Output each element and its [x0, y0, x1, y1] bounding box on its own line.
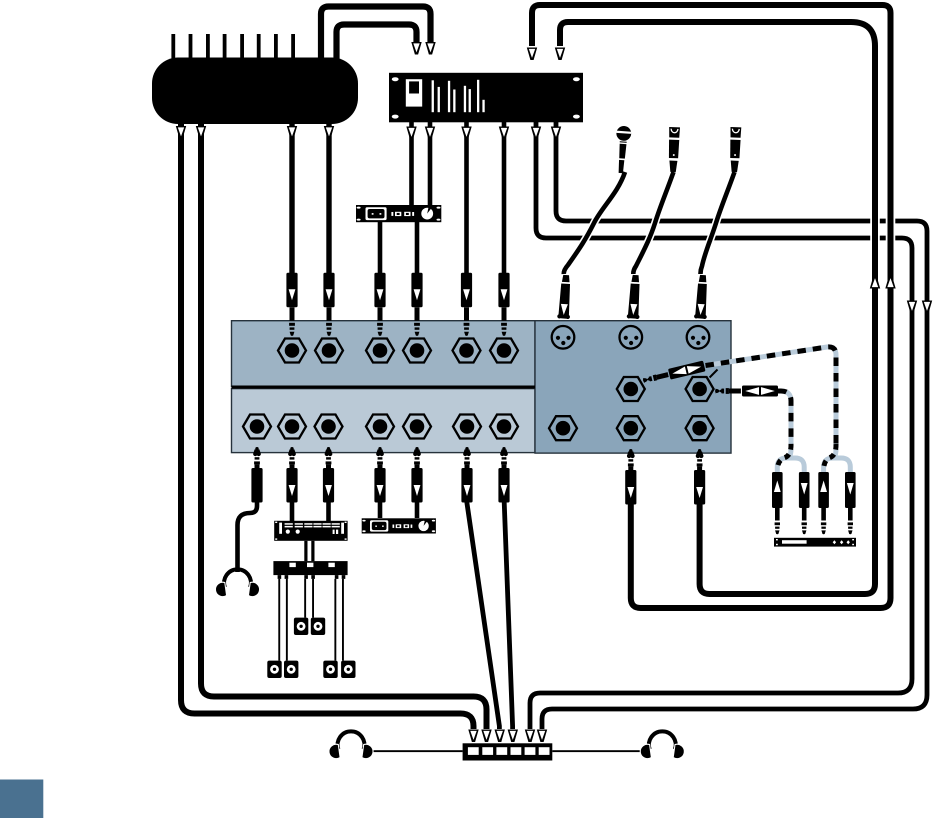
- wire: keyboard lower output L1 to distribution box (left outer loop): [176, 124, 479, 742]
- return loop: aux out jack to processor top input 1 (via right side): [527, 5, 896, 608]
- insert send/return cable into insert jack J15 (horizontal plug): [715, 386, 791, 447]
- headphone line right: [552, 750, 641, 752]
- effects loop plug 1 (send): [772, 472, 783, 534]
- Y-split link arc (left pair): [777, 444, 804, 474]
- wire: keyboard output 2 loop to processor input 2: [337, 25, 422, 61]
- jack socket J17 (aux/monitor out 2): [617, 416, 645, 440]
- wire: keyboard output to mixer channel 2: [324, 124, 334, 273]
- wire: processor output 3 to mixer channel 5: [461, 122, 471, 273]
- jack socket J4 (line in 4): [403, 339, 431, 363]
- wire: output 1 to listening headphones H1: [238, 502, 258, 572]
- compressor unit A (1001): [356, 205, 441, 222]
- wire: output 7 to distribution box input 4: [504, 502, 518, 742]
- speaker SP6: [341, 661, 355, 678]
- jack plug into line in 4: [411, 273, 422, 336]
- jack socket J11 (output 5): [403, 415, 431, 439]
- speaker wires pair 3: [334, 579, 344, 661]
- wire: keyboard output 1 loop to processor input 1: [321, 7, 436, 61]
- wire: outputs 2,3 to power amp PA1: [292, 502, 329, 521]
- headphone distribution box DB1: [463, 743, 553, 760]
- effects loop plug 2 (return): [799, 472, 810, 534]
- return loop: monitor out jack to processor top input 2 (via right side): [555, 22, 880, 594]
- output plug into output jack 7: [498, 447, 509, 503]
- headphones H3 (right of box): [639, 731, 685, 759]
- XLR plug of microphone M3: [694, 275, 709, 319]
- output plug into output jack 2: [286, 447, 297, 503]
- corner accent square: [0, 780, 43, 818]
- wire: processor output 4 to mixer channel 6: [499, 122, 509, 273]
- jack socket J2 (line in 2): [315, 339, 343, 363]
- speaker terminal strip TS1: [273, 561, 347, 579]
- insert jack socket J15 with switch tick: [686, 370, 718, 402]
- wire: compressor A output 2 to mixer channel 4: [415, 222, 420, 273]
- speaker wires pair 1: [278, 579, 288, 661]
- microphone M1 cable to mixer XLR 1: [564, 172, 625, 274]
- effects loop plug 3 (send): [818, 472, 829, 534]
- jack socket J6 (line in 6): [490, 339, 518, 363]
- mixer panel: mic/aux section: [535, 321, 731, 453]
- mixer panel: line input section: [232, 321, 536, 387]
- jack plug into line in 2: [323, 273, 334, 336]
- mixer panel: output section: [232, 389, 536, 453]
- XLR plug of microphone M2: [627, 275, 642, 319]
- jack socket J3 (line in 3): [366, 339, 394, 363]
- compressor unit B (1001): [362, 518, 436, 533]
- headphones H1: [215, 569, 261, 597]
- jack socket J16 (aux/monitor out 1): [549, 416, 577, 440]
- jack plug into line in 3: [374, 273, 385, 336]
- Y-split link arc (right pair): [824, 444, 851, 474]
- jack plug into line in 6: [498, 273, 509, 336]
- power amplifier PA1: [274, 521, 347, 541]
- headphone line left: [372, 750, 463, 752]
- insert send/return cable into insert jack J14 (diagonal plug): [642, 347, 836, 446]
- insert jack socket J14: [617, 377, 645, 401]
- effects unit FX1: [774, 538, 856, 547]
- effects loop plug 4 (return): [845, 472, 856, 534]
- jack socket J9 (output 3): [315, 415, 343, 439]
- speaker SP4: [311, 618, 325, 635]
- processor rack unit U1: [389, 73, 583, 123]
- microphone M3 (condenser): [729, 127, 741, 172]
- jack plug into line in 1: [286, 273, 297, 336]
- wire: processor output 2 to compressor A input 2: [425, 122, 435, 205]
- divider between mixer sections: [232, 386, 536, 389]
- wire: keyboard output to mixer channel 1: [287, 124, 297, 273]
- microphone M1 (dynamic): [614, 125, 632, 173]
- XLR input socket X3: [687, 326, 710, 349]
- jack plug into line in 5: [461, 273, 472, 336]
- wire: keyboard lower output L2 to distribution box (left inner loop): [196, 124, 492, 742]
- wires: outputs 4,5 to compressor B: [380, 502, 417, 518]
- microphone M3 cable to mixer XLR 3: [700, 172, 734, 274]
- jack socket J12 (output 6): [453, 415, 481, 439]
- output plug into output jack 4: [374, 447, 385, 503]
- speaker SP1: [267, 661, 281, 678]
- XLR input socket X1: [552, 326, 575, 349]
- jack socket J10 (output 4): [366, 415, 394, 439]
- wire: processor output 1 to compressor A input 1: [406, 122, 416, 205]
- XLR input socket X2: [620, 326, 643, 349]
- jack socket J18 (aux/monitor out 3): [686, 416, 714, 440]
- speaker SP5: [323, 661, 337, 678]
- speaker wires pair 2: [304, 579, 314, 618]
- jack socket J8 (output 2): [278, 415, 306, 439]
- wires: amp outputs to speaker terminal strip: [304, 541, 314, 561]
- jack socket J5 (line in 5): [453, 339, 481, 363]
- microphone M2 (condenser): [668, 127, 680, 172]
- speaker SP3: [294, 618, 308, 635]
- speaker SP2: [284, 661, 298, 678]
- headphone plug (no arrow) into output 1: [251, 447, 262, 503]
- headphones H2 (left of box): [328, 731, 374, 759]
- jack socket J1 (line in 1): [278, 339, 306, 363]
- microphone M2 cable to mixer XLR 2: [633, 172, 673, 274]
- XLR plug of microphone M1: [557, 275, 572, 319]
- wire: compressor A output 1 to mixer channel 3: [378, 222, 383, 273]
- wire: output 6 to distribution box input 3: [467, 502, 505, 742]
- output plug into output jack 6: [461, 447, 472, 503]
- wire: processor output 6 routed right to distribution box input 6: [537, 122, 932, 742]
- keyboard synthesizer K1: [152, 34, 358, 124]
- insert plugs into aux/monitor out J17 J18: [625, 449, 636, 505]
- jack socket J13 (output 7): [490, 415, 518, 439]
- output plug into output jack 5: [411, 447, 422, 503]
- wire: processor output 5 routed right to distribution box input 5: [525, 122, 917, 742]
- output plug into output jack 3: [323, 447, 334, 503]
- jack socket J7 (output 1): [243, 415, 271, 439]
